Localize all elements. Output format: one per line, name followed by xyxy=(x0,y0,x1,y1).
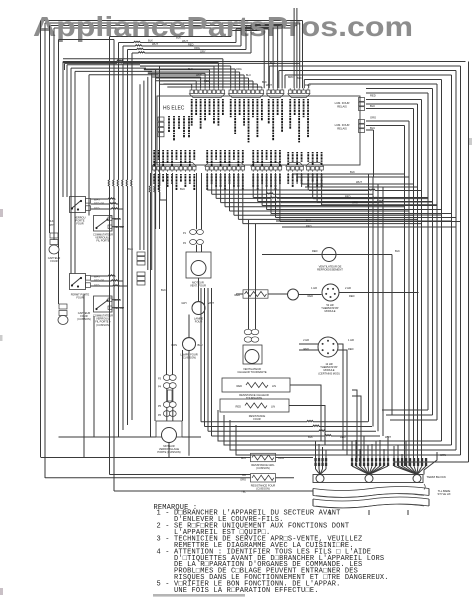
relay commutateur 2 xyxy=(94,296,113,312)
svg-text:BLK: BLK xyxy=(188,68,193,71)
svg-text:FIL PORTE: FIL PORTE xyxy=(96,239,110,243)
svg-text:BLK: BLK xyxy=(252,28,257,32)
svg-text:BRN: BRN xyxy=(288,76,293,79)
svg-text:CHALEUR TOURNANTE: CHALEUR TOURNANTE xyxy=(237,370,266,374)
wire left bundle verticals xyxy=(40,21,42,458)
door latch switch 2 xyxy=(70,274,86,290)
wire second bundle xyxy=(108,37,109,475)
oven lamp 1 xyxy=(198,278,200,302)
svg-text:RED: RED xyxy=(370,94,376,98)
mid connector 1 xyxy=(137,252,145,256)
wires drops from right horizontals into strips xyxy=(268,66,270,88)
door latch switch 1 xyxy=(70,197,86,213)
wire right bundle verticals xyxy=(468,62,470,463)
svg-text:(CUISSON): (CUISSON) xyxy=(256,466,270,470)
svg-text:(CUISSON): (CUISSON) xyxy=(77,317,91,321)
wires staircase right segments xyxy=(382,409,428,411)
svg-text:(CUISSON): (CUISSON) xyxy=(96,323,110,327)
wires long mid verticals xyxy=(368,174,370,422)
svg-text:LUM. FOUR: LUM. FOUR xyxy=(335,101,350,105)
svg-text:LIN: LIN xyxy=(271,405,275,409)
wires switch feed verticals xyxy=(66,65,68,197)
cable ticks xyxy=(329,510,331,515)
svg-text:BLU: BLU xyxy=(198,343,203,347)
wire left x58 to second bundle xyxy=(59,39,115,41)
labels below bottom strips xyxy=(153,174,155,175)
svg-text:RED: RED xyxy=(204,80,209,83)
wires hidden under watermark xyxy=(41,20,303,22)
controller right connectors xyxy=(359,98,365,102)
svg-text:RED: RED xyxy=(349,294,355,298)
svg-text:RED: RED xyxy=(236,405,242,409)
green ground wire xyxy=(424,452,437,475)
svg-text:BLK: BLK xyxy=(128,247,133,251)
terminal wire tabs xyxy=(314,458,316,461)
svg-text:TERM BLOCK: TERM BLOCK xyxy=(427,475,447,479)
svg-text:BLU: BLU xyxy=(246,74,251,77)
svg-text:RED: RED xyxy=(188,43,194,47)
svg-text:BLK: BLK xyxy=(395,249,400,253)
svg-text:GRY: GRY xyxy=(181,301,187,305)
controller top pin labels dense xyxy=(191,99,193,100)
svg-text:ORG: ORG xyxy=(240,478,246,482)
svg-text:WHT: WHT xyxy=(152,42,158,46)
svg-text:WHT: WHT xyxy=(182,39,188,43)
resistor gril cuisson xyxy=(252,455,274,460)
terminal group G1 wires xyxy=(315,441,317,469)
svg-text:RED: RED xyxy=(345,195,351,199)
svg-text:BLU: BLU xyxy=(270,62,275,65)
svg-text:TOURNANTE: TOURNANTE xyxy=(246,396,262,400)
svg-text:FOUR: FOUR xyxy=(76,222,83,226)
oven sensor capteur four 1 xyxy=(50,233,58,238)
svg-text:RED: RED xyxy=(348,347,354,351)
cooling fan xyxy=(322,248,336,262)
terminal group G3 wires xyxy=(393,446,395,466)
svg-text:LIN: LIN xyxy=(272,384,276,388)
svg-text:AppliancePartsPros.com: AppliancePartsPros.com xyxy=(33,11,413,42)
wires riser fan strip2 xyxy=(230,66,232,88)
wire dark top pair xyxy=(63,60,466,62)
svg-text:FOUR: FOUR xyxy=(50,259,57,263)
svg-text:2 HR: 2 HR xyxy=(303,338,309,342)
door lock motor xyxy=(156,421,182,437)
svg-text:FOUR: FOUR xyxy=(76,296,83,300)
controller bottom pin labels above xyxy=(153,150,155,151)
wires right bundle top horizontals xyxy=(269,65,460,67)
svg-text:MODULE: MODULE xyxy=(324,309,335,313)
wires mid right bus xyxy=(293,173,405,175)
lamp chain connectors xyxy=(163,375,170,381)
svg-text:STYLE HX: STYLE HX xyxy=(438,492,451,496)
bottom long horizontals xyxy=(59,436,157,438)
svg-text:RED: RED xyxy=(312,249,318,253)
resistor four cuisson xyxy=(252,475,274,480)
svg-text:2 HR: 2 HR xyxy=(345,286,351,290)
oven lamp 2 cuisson xyxy=(183,338,196,351)
terminal block bar xyxy=(313,475,423,483)
svg-text:RED: RED xyxy=(308,294,314,298)
svg-text:RED: RED xyxy=(340,435,346,439)
wires convection fan feeds xyxy=(248,220,250,330)
svg-text:REFROIDISSEMENT: REFROIDISSEMENT xyxy=(317,268,343,272)
terminal group G2 wires xyxy=(351,441,353,466)
thermostat module 2 xyxy=(318,337,338,357)
svg-text:BLK: BLK xyxy=(180,187,185,191)
bottom smudge xyxy=(153,594,245,597)
wires mid fan verticals xyxy=(139,84,141,250)
controller left connector xyxy=(158,117,164,121)
svg-text:BLK: BLK xyxy=(161,288,166,292)
svg-text:BRN: BRN xyxy=(172,343,178,347)
svg-text:RD: RD xyxy=(242,473,246,477)
svg-text:BLK: BLK xyxy=(350,170,355,174)
convection fan xyxy=(243,345,262,364)
svg-text:WHT: WHT xyxy=(356,180,362,184)
svg-text:ORG: ORG xyxy=(370,116,376,120)
oven vent motor connectors xyxy=(190,230,197,235)
svg-text:ORG: ORG xyxy=(352,201,358,205)
controller board HS ELEC xyxy=(157,96,360,165)
mid connector 2 xyxy=(137,272,145,276)
thermostat module 1 xyxy=(245,291,267,296)
svg-text:1 HR: 1 HR xyxy=(348,338,354,342)
svg-text:YEL: YEL xyxy=(241,490,246,494)
svg-text:BLK: BLK xyxy=(148,39,153,43)
convection fan connectors xyxy=(244,329,252,334)
controller bottom strips xyxy=(153,167,157,171)
svg-text:BLU: BLU xyxy=(241,456,246,460)
svg-text:1 HR: 1 HR xyxy=(311,286,317,290)
wires b4 b5 drops xyxy=(287,173,289,174)
svg-text:RED: RED xyxy=(237,384,243,388)
wires mid risers to second bundle xyxy=(235,29,237,43)
svg-text:GRN: GRN xyxy=(440,453,446,457)
svg-text:RELAIS: RELAIS xyxy=(337,126,347,130)
relay commutateur 1 xyxy=(94,216,113,232)
svg-text:FOUR: FOUR xyxy=(253,417,260,421)
svg-text:LUM. FOUR: LUM. FOUR xyxy=(335,123,350,127)
svg-text:WHT: WHT xyxy=(196,74,202,77)
wires lamp feed verticals xyxy=(166,173,168,375)
controller top connector strips xyxy=(190,90,194,94)
svg-text:UNE FOIS LA R□PARATION EFFECTU: UNE FOIS LA R□PARATION EFFECTU□E. xyxy=(157,587,319,595)
wire vertical to motor box xyxy=(182,350,184,421)
svg-text:BLK: BLK xyxy=(308,435,313,439)
svg-text:ORG: ORG xyxy=(236,68,242,71)
resistance four box xyxy=(220,399,289,412)
svg-text:GRY: GRY xyxy=(200,50,206,54)
svg-text:BLU: BLU xyxy=(370,126,375,130)
svg-text:(CERTAINS MOD): (CERTAINS MOD) xyxy=(318,371,340,375)
svg-text:RELAIS: RELAIS xyxy=(337,104,347,108)
power cable wavy bands xyxy=(313,487,429,491)
svg-text:HS ELEC: HS ELEC xyxy=(163,106,185,112)
svg-text:BLK: BLK xyxy=(370,104,375,108)
wires below switch2 xyxy=(83,294,85,458)
wires bottom staircase with wiggles xyxy=(201,420,368,421)
svg-text:WHT: WHT xyxy=(49,224,55,227)
wires mid bottom verticals xyxy=(290,385,321,441)
oven sensor capteur four 2 xyxy=(59,304,67,309)
resistance chaleur tournante box xyxy=(222,378,290,392)
svg-text:ORG: ORG xyxy=(194,46,200,50)
svg-text:BLK: BLK xyxy=(297,76,302,80)
wires right connector to right verticals xyxy=(366,99,422,101)
svg-text:BLK: BLK xyxy=(49,220,54,223)
oven vent motor xyxy=(186,252,211,278)
wires riser fan strip1 xyxy=(191,84,193,88)
wires staircase below controller left xyxy=(206,173,208,190)
svg-text:BLK: BLK xyxy=(176,36,181,40)
wires left bundle tops to strip4 xyxy=(302,21,304,89)
svg-text:(CUISSON): (CUISSON) xyxy=(256,487,270,491)
